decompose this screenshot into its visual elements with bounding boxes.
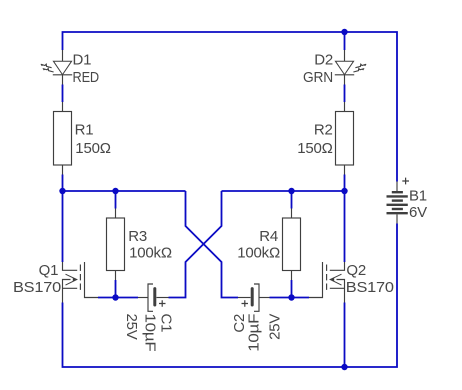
wire D1 cathode to R1 top [62,85,64,103]
svg-text:BS170: BS170 [13,279,61,296]
wire D2 cathode to R2 top [344,85,346,103]
wire Q2 gate node row [270,297,310,299]
wire cross-couple right node to C1 plus [169,191,222,298]
wire left node row and left rail to Q1 drain [63,191,186,262]
svg-text:150Ω: 150Ω [297,140,332,157]
svg-text:R4: R4 [259,228,278,245]
svg-text:GRN: GRN [303,69,333,86]
svg-text:6V: 6V [409,204,427,221]
svg-text:C1: C1 [158,314,175,333]
transistor Q2 [309,262,345,303]
svg-text:D2: D2 [314,51,333,68]
LED D2 [335,50,367,85]
svg-text:R1: R1 [75,122,94,139]
resistor R1 [54,102,72,175]
wire R4 bottom to gate node [291,280,293,298]
junction Q1 gate node [112,294,118,300]
LED D1 [40,50,72,85]
svg-text:B1: B1 [409,188,427,205]
junction R4 top node [288,188,294,194]
junction R3 top node [112,188,118,194]
svg-text:RED: RED [73,69,100,86]
svg-text:150Ω: 150Ω [75,140,110,157]
svg-text:25V: 25V [267,314,284,340]
wire Q2 source to bottom rail [344,303,346,368]
junction Q2 gate node [288,294,294,300]
junction R1 bottom node [59,188,65,194]
svg-text:BS170: BS170 [346,279,394,296]
wire Q1 gate node row [98,297,138,299]
wire node row to Q2 drain [344,191,346,262]
capacitor C2 [238,284,270,311]
battery B1 [387,178,410,224]
svg-text:Q2: Q2 [346,262,366,279]
resistor R3 [107,209,125,281]
junction top rail at D2 [341,29,347,35]
transistor Q1 [63,262,99,303]
svg-text:100kΩ: 100kΩ [129,245,172,262]
wire right node row [222,190,345,192]
wire top rail from D1 anode to battery plus [63,32,398,182]
svg-text:D1: D1 [73,51,92,68]
svg-text:Q1: Q1 [39,262,59,279]
junction bottom rail at Q2 source [341,364,347,370]
svg-text:R2: R2 [314,122,333,139]
svg-text:10µF: 10µF [142,314,159,352]
wire R3 bottom to gate node [115,280,117,298]
wire R4 top stub [291,191,293,209]
wire R2 bottom to node row [344,175,346,192]
svg-text:100kΩ: 100kΩ [237,245,280,262]
wire Q1 source to bottom rail to battery minus [63,224,398,368]
svg-text:25V: 25V [123,314,140,340]
junction R2 bottom node [341,188,347,194]
resistor R2 [336,102,354,175]
svg-text:10µF: 10µF [246,314,263,352]
wire R1 bottom to node row [62,175,64,192]
capacitor C1 [138,284,169,311]
wire R3 top stub [115,191,117,209]
resistor R4 [283,209,301,281]
wire D2 anode stub [344,32,346,50]
wire cross-couple left node to C2 plus [186,191,239,298]
svg-text:R3: R3 [128,228,147,245]
